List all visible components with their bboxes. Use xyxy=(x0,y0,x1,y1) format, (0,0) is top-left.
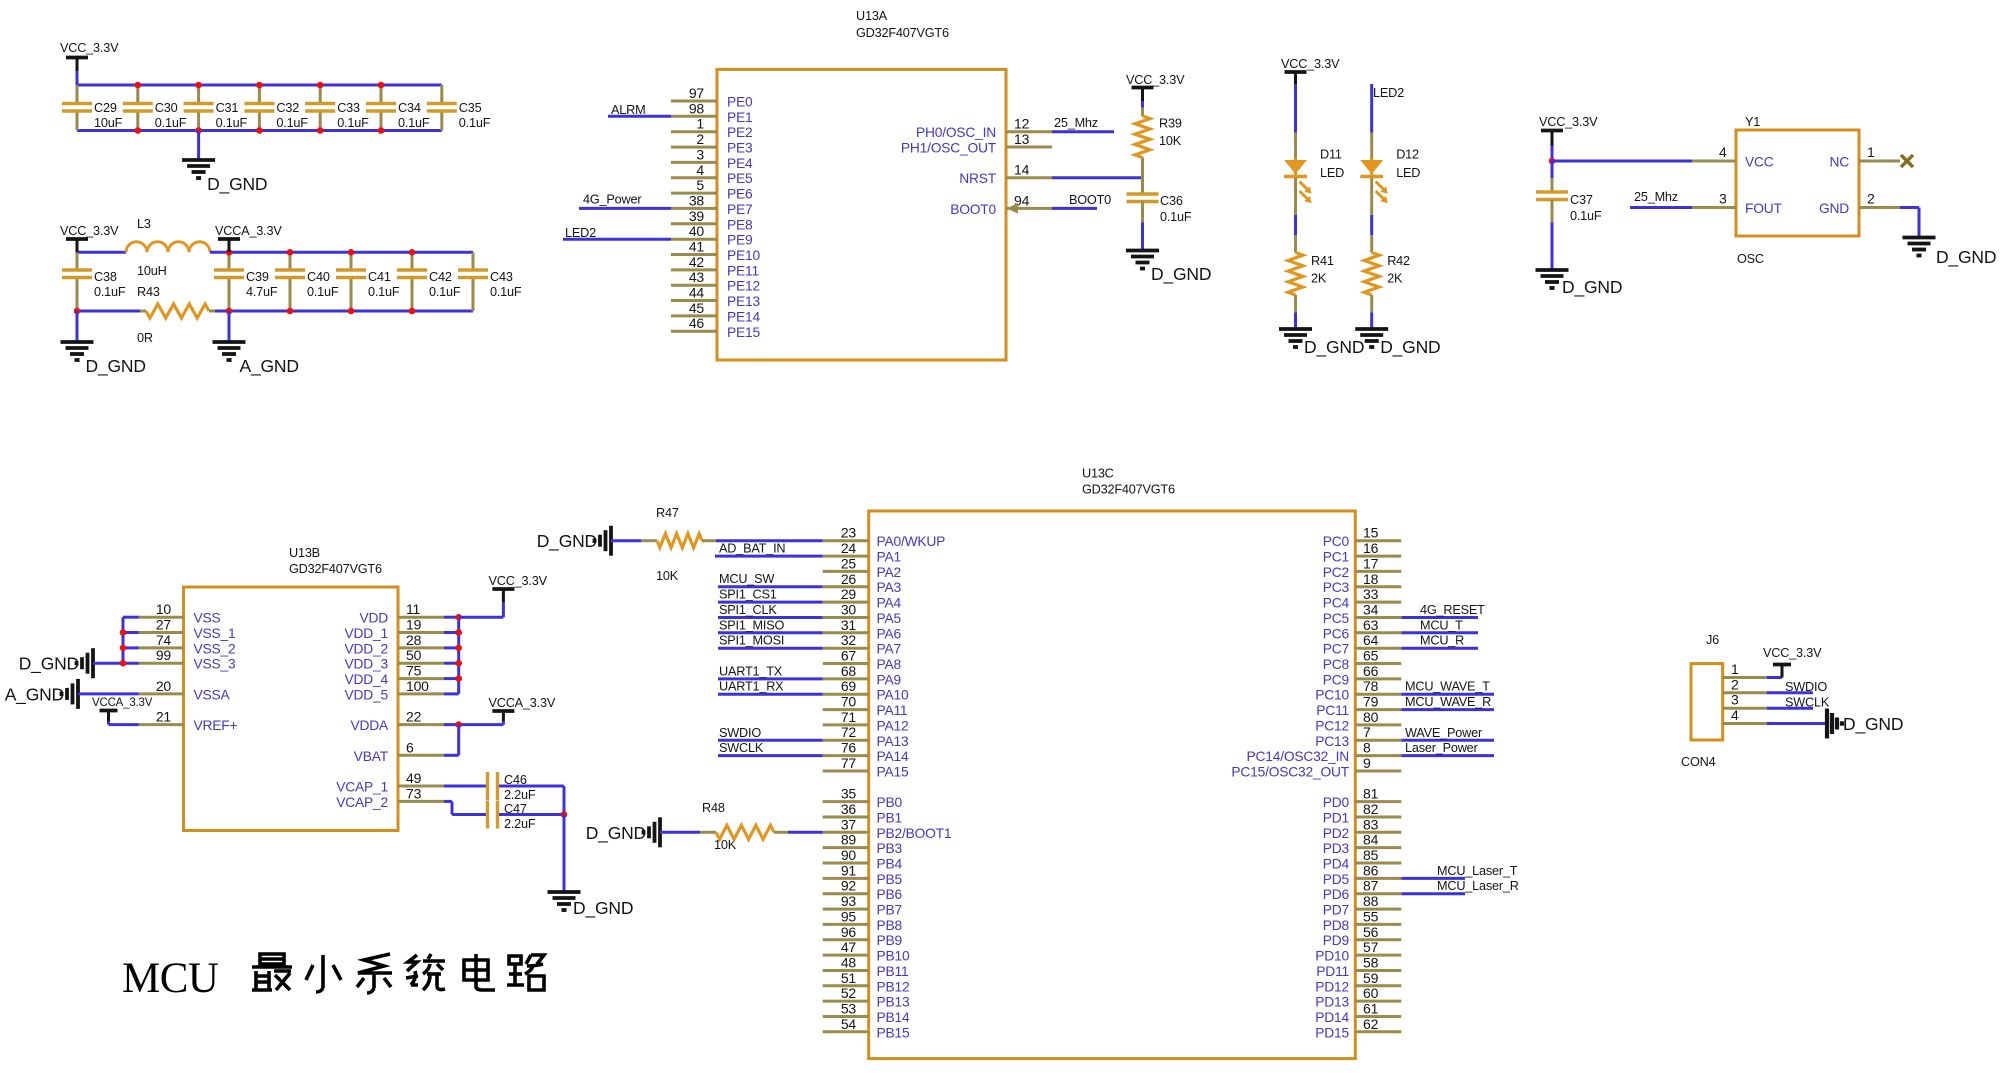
svg-text:PB4: PB4 xyxy=(877,857,903,872)
svg-text:PA14: PA14 xyxy=(877,749,909,764)
svg-text:VDD_1: VDD_1 xyxy=(345,626,388,641)
svg-text:2.2uF: 2.2uF xyxy=(504,788,536,802)
svg-text:PA15: PA15 xyxy=(877,765,909,780)
svg-text:81: 81 xyxy=(1363,786,1379,802)
svg-text:R48: R48 xyxy=(702,801,725,815)
svg-text:78: 78 xyxy=(1363,678,1379,694)
svg-text:PD13: PD13 xyxy=(1315,995,1349,1010)
svg-text:VSS: VSS xyxy=(194,611,221,626)
svg-text:4G_Power: 4G_Power xyxy=(583,193,642,207)
svg-text:5: 5 xyxy=(696,177,704,193)
svg-text:PA8: PA8 xyxy=(877,657,902,672)
svg-text:C38: C38 xyxy=(94,270,117,284)
svg-text:PA3: PA3 xyxy=(877,580,902,595)
svg-text:1: 1 xyxy=(1867,144,1875,160)
svg-text:VCC_3.3V: VCC_3.3V xyxy=(60,41,119,55)
svg-text:0.1uF: 0.1uF xyxy=(155,116,187,130)
svg-text:PD14: PD14 xyxy=(1315,1010,1349,1025)
svg-text:PA1: PA1 xyxy=(877,550,901,565)
svg-text:C35: C35 xyxy=(459,101,482,115)
svg-text:D_GND: D_GND xyxy=(1380,337,1440,358)
svg-text:38: 38 xyxy=(689,192,705,208)
svg-text:C34: C34 xyxy=(398,101,421,115)
svg-text:PB11: PB11 xyxy=(877,964,909,979)
svg-text:PC2: PC2 xyxy=(1323,565,1349,580)
svg-text:90: 90 xyxy=(841,847,857,863)
svg-text:65: 65 xyxy=(1363,648,1379,664)
svg-text:70: 70 xyxy=(841,694,857,710)
svg-text:59: 59 xyxy=(1363,970,1379,986)
svg-text:VDD: VDD xyxy=(359,611,388,626)
svg-text:79: 79 xyxy=(1363,694,1379,710)
svg-text:D_GND: D_GND xyxy=(537,531,597,552)
svg-text:PB2/BOOT1: PB2/BOOT1 xyxy=(877,826,952,841)
svg-text:LED2: LED2 xyxy=(565,226,596,240)
svg-text:SWDIO: SWDIO xyxy=(719,726,761,740)
svg-text:6: 6 xyxy=(406,739,414,755)
svg-text:C39: C39 xyxy=(246,270,269,284)
svg-text:D_GND: D_GND xyxy=(1936,247,1996,268)
svg-text:VCC_3.3V: VCC_3.3V xyxy=(60,224,119,238)
svg-text:VSSA: VSSA xyxy=(194,687,231,702)
svg-text:R47: R47 xyxy=(656,506,679,520)
svg-text:82: 82 xyxy=(1363,801,1379,817)
svg-text:U13C: U13C xyxy=(1082,467,1114,481)
svg-text:MCU_SW: MCU_SW xyxy=(719,572,774,586)
svg-text:3: 3 xyxy=(696,146,704,162)
svg-text:D11: D11 xyxy=(1320,148,1342,162)
svg-text:PB13: PB13 xyxy=(877,995,910,1010)
svg-text:4.7uF: 4.7uF xyxy=(246,285,278,299)
svg-text:PD6: PD6 xyxy=(1323,887,1350,902)
svg-text:VCCA_3.3V: VCCA_3.3V xyxy=(489,696,556,710)
svg-text:VCC_3.3V: VCC_3.3V xyxy=(1126,73,1185,87)
svg-text:71: 71 xyxy=(841,709,857,725)
svg-text:D_GND: D_GND xyxy=(573,898,633,919)
svg-text:58: 58 xyxy=(1363,955,1379,971)
svg-text:25_Mhz: 25_Mhz xyxy=(1054,116,1098,130)
svg-text:PB3: PB3 xyxy=(877,841,903,856)
svg-text:MCU_Laser_T: MCU_Laser_T xyxy=(1437,864,1518,878)
svg-text:VDD_2: VDD_2 xyxy=(345,641,388,656)
svg-text:C33: C33 xyxy=(337,101,360,115)
svg-text:43: 43 xyxy=(689,269,705,285)
svg-text:53: 53 xyxy=(841,1001,857,1017)
svg-text:34: 34 xyxy=(1363,602,1379,618)
svg-text:4: 4 xyxy=(696,162,704,178)
svg-text:33: 33 xyxy=(1363,586,1379,602)
svg-text:D_GND: D_GND xyxy=(1151,264,1211,285)
svg-text:32: 32 xyxy=(841,632,857,648)
svg-text:PA9: PA9 xyxy=(877,672,902,687)
svg-text:A_GND: A_GND xyxy=(5,685,64,706)
svg-text:PA13: PA13 xyxy=(877,734,909,749)
svg-text:PE8: PE8 xyxy=(727,217,753,232)
svg-text:54: 54 xyxy=(841,1016,857,1032)
svg-text:PD3: PD3 xyxy=(1323,841,1350,856)
svg-text:0.1uF: 0.1uF xyxy=(398,116,430,130)
svg-text:4G_RESET: 4G_RESET xyxy=(1420,603,1485,617)
svg-text:PE7: PE7 xyxy=(727,202,752,217)
svg-text:45: 45 xyxy=(689,300,705,316)
svg-text:25_Mhz: 25_Mhz xyxy=(1634,190,1678,204)
svg-text:PE14: PE14 xyxy=(727,309,760,324)
svg-text:1: 1 xyxy=(1731,661,1739,677)
svg-text:PE11: PE11 xyxy=(727,263,759,278)
svg-text:51: 51 xyxy=(841,970,857,986)
svg-text:R39: R39 xyxy=(1159,117,1182,131)
svg-text:13: 13 xyxy=(1014,131,1030,147)
svg-text:2: 2 xyxy=(1731,676,1739,692)
svg-text:PE0: PE0 xyxy=(727,95,753,110)
svg-text:11: 11 xyxy=(406,601,421,617)
svg-text:NC: NC xyxy=(1829,155,1849,170)
svg-text:44: 44 xyxy=(689,285,705,301)
svg-text:10K: 10K xyxy=(1159,134,1182,148)
svg-text:C42: C42 xyxy=(429,270,452,284)
svg-text:2K: 2K xyxy=(1311,272,1327,286)
svg-text:PD2: PD2 xyxy=(1323,826,1349,841)
svg-text:PA11: PA11 xyxy=(877,703,908,718)
svg-text:9: 9 xyxy=(1363,755,1371,771)
svg-text:60: 60 xyxy=(1363,985,1379,1001)
svg-text:UART1_RX: UART1_RX xyxy=(719,680,784,694)
svg-text:93: 93 xyxy=(841,893,857,909)
svg-text:21: 21 xyxy=(156,709,172,725)
svg-text:C41: C41 xyxy=(368,270,391,284)
svg-text:R43: R43 xyxy=(137,285,160,299)
svg-text:VDD_5: VDD_5 xyxy=(345,687,389,702)
svg-text:C31: C31 xyxy=(216,101,239,115)
svg-text:PB15: PB15 xyxy=(877,1025,910,1040)
svg-text:PC1: PC1 xyxy=(1323,550,1349,565)
svg-text:57: 57 xyxy=(1363,939,1379,955)
svg-text:PC11: PC11 xyxy=(1316,703,1349,718)
svg-text:17: 17 xyxy=(1363,555,1379,571)
svg-text:74: 74 xyxy=(156,632,172,648)
svg-text:VSS_2: VSS_2 xyxy=(194,641,236,656)
svg-text:PB10: PB10 xyxy=(877,949,910,964)
svg-text:NRST: NRST xyxy=(959,171,997,186)
svg-text:PD0: PD0 xyxy=(1323,795,1350,810)
svg-text:PH0/OSC_IN: PH0/OSC_IN xyxy=(916,125,996,140)
svg-text:VCC_3.3V: VCC_3.3V xyxy=(1763,646,1822,660)
svg-text:PC6: PC6 xyxy=(1323,626,1350,641)
svg-text:98: 98 xyxy=(689,100,705,116)
svg-text:2K: 2K xyxy=(1387,272,1403,286)
svg-text:1: 1 xyxy=(696,116,704,132)
svg-text:VCC_3.3V: VCC_3.3V xyxy=(489,574,548,588)
svg-text:PB8: PB8 xyxy=(877,918,903,933)
svg-text:VSS_1: VSS_1 xyxy=(194,626,236,641)
svg-text:U13A: U13A xyxy=(856,9,888,23)
svg-text:R41: R41 xyxy=(1311,254,1334,268)
svg-text:PC0: PC0 xyxy=(1323,534,1350,549)
svg-text:37: 37 xyxy=(841,816,857,832)
svg-text:77: 77 xyxy=(841,755,857,771)
svg-text:69: 69 xyxy=(841,678,857,694)
svg-text:PB6: PB6 xyxy=(877,887,903,902)
svg-text:PD5: PD5 xyxy=(1323,872,1350,887)
svg-text:3: 3 xyxy=(1731,692,1739,708)
svg-text:PA6: PA6 xyxy=(877,626,902,641)
svg-text:0.1uF: 0.1uF xyxy=(307,285,339,299)
svg-text:18: 18 xyxy=(1363,571,1379,587)
svg-text:OSC: OSC xyxy=(1737,252,1764,266)
svg-text:PC7: PC7 xyxy=(1323,642,1349,657)
svg-text:PC8: PC8 xyxy=(1323,657,1350,672)
svg-text:0.1uF: 0.1uF xyxy=(429,285,461,299)
svg-text:GD32F407VGT6: GD32F407VGT6 xyxy=(289,562,382,576)
svg-text:39: 39 xyxy=(689,208,705,224)
svg-text:D_GND: D_GND xyxy=(1562,277,1622,298)
svg-text:52: 52 xyxy=(841,985,857,1001)
svg-text:Laser_Power: Laser_Power xyxy=(1405,741,1479,755)
svg-text:PE12: PE12 xyxy=(727,279,760,294)
svg-text:FOUT: FOUT xyxy=(1745,201,1783,216)
svg-text:VCAP_1: VCAP_1 xyxy=(336,780,388,795)
svg-text:Y1: Y1 xyxy=(1745,115,1760,129)
svg-text:95: 95 xyxy=(841,908,857,924)
svg-text:15: 15 xyxy=(1363,525,1379,541)
svg-text:PB12: PB12 xyxy=(877,979,910,994)
svg-text:VCAP_2: VCAP_2 xyxy=(336,795,388,810)
svg-text:PC14/OSC32_IN: PC14/OSC32_IN xyxy=(1247,749,1349,764)
svg-text:8: 8 xyxy=(1363,740,1371,756)
svg-text:76: 76 xyxy=(841,740,857,756)
svg-text:0.1uF: 0.1uF xyxy=(1160,210,1192,224)
svg-text:GD32F407VGT6: GD32F407VGT6 xyxy=(856,26,949,40)
svg-text:2: 2 xyxy=(1867,191,1875,207)
svg-text:C29: C29 xyxy=(94,101,117,115)
svg-text:C36: C36 xyxy=(1160,194,1183,208)
svg-text:40: 40 xyxy=(689,223,705,239)
svg-text:D12: D12 xyxy=(1396,148,1419,162)
svg-text:31: 31 xyxy=(841,617,857,633)
svg-text:80: 80 xyxy=(1363,709,1379,725)
svg-text:MCU_Laser_R: MCU_Laser_R xyxy=(1437,879,1519,893)
svg-text:PB5: PB5 xyxy=(877,872,903,887)
svg-text:PA5: PA5 xyxy=(877,611,902,626)
svg-text:10uF: 10uF xyxy=(94,116,123,130)
svg-text:SWDIO: SWDIO xyxy=(1785,680,1827,694)
svg-text:68: 68 xyxy=(841,663,857,679)
svg-text:PC4: PC4 xyxy=(1323,596,1350,611)
svg-text:19: 19 xyxy=(406,617,422,633)
svg-text:VCC_3.3V: VCC_3.3V xyxy=(1281,57,1340,71)
svg-text:PB1: PB1 xyxy=(877,811,902,826)
svg-text:75: 75 xyxy=(406,663,422,679)
svg-text:84: 84 xyxy=(1363,832,1379,848)
svg-text:0.1uF: 0.1uF xyxy=(368,285,400,299)
svg-text:12: 12 xyxy=(1014,116,1030,132)
svg-text:D_GND: D_GND xyxy=(86,356,146,377)
svg-text:PA7: PA7 xyxy=(877,642,901,657)
svg-text:PA12: PA12 xyxy=(877,718,909,733)
svg-text:SPI1_CLK: SPI1_CLK xyxy=(719,603,777,617)
svg-text:C37: C37 xyxy=(1570,193,1593,207)
svg-text:L3: L3 xyxy=(137,217,151,231)
svg-text:PD8: PD8 xyxy=(1323,918,1350,933)
svg-text:PE13: PE13 xyxy=(727,294,760,309)
svg-text:16: 16 xyxy=(1363,540,1379,556)
svg-text:C30: C30 xyxy=(155,101,178,115)
svg-text:0.1uF: 0.1uF xyxy=(94,285,126,299)
svg-text:50: 50 xyxy=(406,647,422,663)
svg-text:SWCLK: SWCLK xyxy=(719,741,764,755)
svg-text:UART1_TX: UART1_TX xyxy=(719,664,783,678)
svg-text:PD10: PD10 xyxy=(1315,949,1349,964)
svg-text:PE1: PE1 xyxy=(727,110,752,125)
svg-text:MCU_WAVE_T: MCU_WAVE_T xyxy=(1405,680,1490,694)
svg-text:VREF+: VREF+ xyxy=(194,718,238,733)
svg-text:89: 89 xyxy=(841,832,857,848)
svg-text:VDDA: VDDA xyxy=(350,718,389,733)
svg-text:PC3: PC3 xyxy=(1323,580,1350,595)
svg-text:55: 55 xyxy=(1363,908,1379,924)
svg-text:LED: LED xyxy=(1320,166,1344,180)
svg-text:PA2: PA2 xyxy=(877,565,901,580)
svg-text:PH1/OSC_OUT: PH1/OSC_OUT xyxy=(901,141,997,156)
svg-text:VSS_3: VSS_3 xyxy=(194,657,236,672)
svg-text:R42: R42 xyxy=(1387,254,1410,268)
svg-text:10uH: 10uH xyxy=(137,264,167,278)
svg-text:PE10: PE10 xyxy=(727,248,760,263)
svg-text:PA0/WKUP: PA0/WKUP xyxy=(877,534,946,549)
svg-text:PE6: PE6 xyxy=(727,187,753,202)
svg-text:D_GND: D_GND xyxy=(586,823,646,844)
svg-text:23: 23 xyxy=(841,525,857,541)
svg-text:2.2uF: 2.2uF xyxy=(504,817,536,831)
svg-text:PE2: PE2 xyxy=(727,125,752,140)
svg-text:PA10: PA10 xyxy=(877,688,909,703)
svg-text:CON4: CON4 xyxy=(1681,755,1716,769)
svg-text:GND: GND xyxy=(1819,201,1849,216)
svg-text:BOOT0: BOOT0 xyxy=(1069,193,1111,207)
svg-text:0R: 0R xyxy=(137,331,153,345)
svg-text:26: 26 xyxy=(841,571,857,587)
svg-text:0.1uF: 0.1uF xyxy=(216,116,248,130)
svg-text:C40: C40 xyxy=(307,270,330,284)
svg-text:10: 10 xyxy=(156,601,172,617)
svg-text:LED2: LED2 xyxy=(1373,86,1404,100)
svg-text:PC10: PC10 xyxy=(1315,688,1349,703)
svg-text:ALRM: ALRM xyxy=(611,103,645,117)
svg-text:PE4: PE4 xyxy=(727,156,753,171)
svg-text:14: 14 xyxy=(1014,162,1030,178)
svg-text:C43: C43 xyxy=(490,270,513,284)
svg-text:91: 91 xyxy=(841,862,857,878)
svg-text:66: 66 xyxy=(1363,663,1379,679)
svg-text:41: 41 xyxy=(689,239,705,255)
svg-text:PB0: PB0 xyxy=(877,795,903,810)
svg-text:VBAT: VBAT xyxy=(354,749,389,764)
svg-text:36: 36 xyxy=(841,801,857,817)
svg-text:30: 30 xyxy=(841,602,857,618)
svg-text:MCU_T: MCU_T xyxy=(1420,618,1463,632)
svg-text:100: 100 xyxy=(406,678,429,694)
svg-text:C32: C32 xyxy=(276,101,299,115)
svg-text:MCU: MCU xyxy=(122,955,219,1002)
svg-text:PD11: PD11 xyxy=(1316,964,1349,979)
svg-text:10K: 10K xyxy=(656,569,679,583)
svg-text:29: 29 xyxy=(841,586,857,602)
svg-text:85: 85 xyxy=(1363,847,1379,863)
svg-text:49: 49 xyxy=(406,770,422,786)
svg-text:LED: LED xyxy=(1396,166,1420,180)
svg-text:63: 63 xyxy=(1363,617,1379,633)
svg-text:88: 88 xyxy=(1363,893,1379,909)
svg-text:87: 87 xyxy=(1363,878,1379,894)
svg-text:PD1: PD1 xyxy=(1323,811,1349,826)
svg-text:4: 4 xyxy=(1719,144,1727,160)
svg-text:35: 35 xyxy=(841,786,857,802)
svg-text:A_GND: A_GND xyxy=(240,356,299,377)
svg-text:PC9: PC9 xyxy=(1323,672,1350,687)
svg-text:PB7: PB7 xyxy=(877,903,902,918)
svg-text:22: 22 xyxy=(406,709,422,725)
svg-text:VCCA_3.3V: VCCA_3.3V xyxy=(92,697,153,709)
svg-text:PC12: PC12 xyxy=(1315,718,1349,733)
svg-text:D_GND: D_GND xyxy=(207,174,267,195)
svg-text:0.1uF: 0.1uF xyxy=(276,116,308,130)
svg-text:0.1uF: 0.1uF xyxy=(459,116,491,130)
svg-text:AD_BAT_IN: AD_BAT_IN xyxy=(719,542,785,556)
svg-text:PE15: PE15 xyxy=(727,325,760,340)
svg-text:27: 27 xyxy=(156,617,172,633)
svg-text:SPI1_MOSI: SPI1_MOSI xyxy=(719,634,784,648)
svg-text:VDD_4: VDD_4 xyxy=(345,672,389,687)
svg-text:67: 67 xyxy=(841,648,857,664)
svg-text:7: 7 xyxy=(1363,724,1371,740)
svg-text:99: 99 xyxy=(156,647,172,663)
svg-text:24: 24 xyxy=(841,540,857,556)
svg-text:64: 64 xyxy=(1363,632,1379,648)
svg-text:J6: J6 xyxy=(1706,633,1719,647)
svg-text:PD7: PD7 xyxy=(1323,903,1349,918)
svg-text:61: 61 xyxy=(1363,1001,1379,1017)
svg-text:U13B: U13B xyxy=(289,546,320,560)
svg-text:25: 25 xyxy=(841,555,857,571)
svg-text:92: 92 xyxy=(841,878,857,894)
svg-text:2: 2 xyxy=(696,131,704,147)
svg-text:47: 47 xyxy=(841,939,857,955)
svg-text:97: 97 xyxy=(689,85,705,101)
svg-text:SPI1_MISO: SPI1_MISO xyxy=(719,618,785,632)
svg-text:D_GND: D_GND xyxy=(19,654,79,675)
svg-text:PD12: PD12 xyxy=(1315,979,1349,994)
svg-text:PB9: PB9 xyxy=(877,933,903,948)
svg-text:73: 73 xyxy=(406,785,422,801)
svg-text:62: 62 xyxy=(1363,1016,1379,1032)
svg-text:PC15/OSC32_OUT: PC15/OSC32_OUT xyxy=(1231,765,1349,780)
svg-text:VCCA_3.3V: VCCA_3.3V xyxy=(215,224,282,238)
svg-text:GD32F407VGT6: GD32F407VGT6 xyxy=(1082,483,1175,497)
svg-text:PC13: PC13 xyxy=(1315,734,1349,749)
svg-text:4: 4 xyxy=(1731,707,1739,723)
svg-text:PE9: PE9 xyxy=(727,233,753,248)
svg-text:SWCLK: SWCLK xyxy=(1785,696,1830,710)
svg-text:0.1uF: 0.1uF xyxy=(490,285,522,299)
svg-text:MCU_R: MCU_R xyxy=(1420,634,1464,648)
svg-text:46: 46 xyxy=(689,315,705,331)
svg-text:42: 42 xyxy=(689,254,705,270)
svg-text:BOOT0: BOOT0 xyxy=(950,202,996,217)
svg-text:48: 48 xyxy=(841,955,857,971)
svg-text:72: 72 xyxy=(841,724,857,740)
svg-text:PD15: PD15 xyxy=(1315,1025,1349,1040)
svg-text:96: 96 xyxy=(841,924,857,940)
